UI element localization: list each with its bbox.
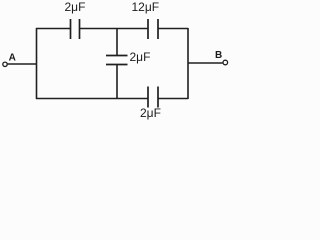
- capacitor 2uF bottom, right plate: [157, 87, 159, 108]
- svg-text:A: A: [9, 53, 16, 64]
- wire left vertical: [36, 28, 38, 99]
- svg-text:2μF: 2μF: [140, 106, 161, 120]
- wire terminal B lead: [188, 62, 223, 64]
- wire top-middle segment: [80, 28, 149, 30]
- svg-text:B: B: [215, 50, 222, 61]
- svg-text:12μF: 12μF: [132, 0, 160, 14]
- wire middle branch lower: [116, 65, 118, 99]
- capacitor 12uF top-right, left plate: [147, 19, 149, 39]
- wire bottom-right segment: [158, 98, 188, 100]
- capacitor 2uF middle, bottom plate: [106, 64, 128, 66]
- wire terminal A lead: [8, 63, 37, 65]
- capacitor 2uF middle, top plate: [106, 55, 128, 57]
- wire bottom-left segment: [36, 98, 148, 100]
- wire middle branch upper: [116, 29, 118, 56]
- wire right vertical: [187, 28, 189, 99]
- terminal A circle: [3, 62, 7, 66]
- terminal B circle: [223, 60, 228, 65]
- capacitor 2uF top-left, right plate: [79, 19, 81, 39]
- capacitor 2uF bottom, left plate: [147, 87, 149, 108]
- svg-text:2μF: 2μF: [130, 50, 151, 64]
- capacitor 12uF top-right, right plate: [157, 19, 159, 39]
- wire top-left segment: [36, 28, 71, 30]
- capacitor 2uF top-left, left plate: [70, 19, 72, 39]
- wire top-right segment: [158, 28, 188, 30]
- svg-text:2μF: 2μF: [65, 0, 86, 14]
